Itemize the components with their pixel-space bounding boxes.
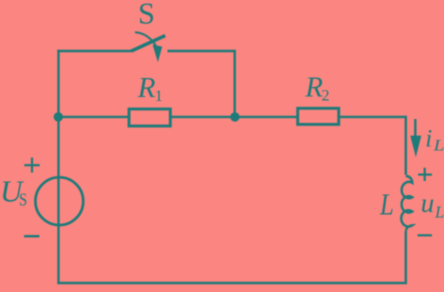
wire: top-left horizontal to switch left contact [57, 50, 131, 52]
switch S blade [131, 36, 165, 52]
svg-text:S: S [138, 0, 155, 31]
svg-text:R: R [304, 72, 323, 104]
plus sign (inductor) [418, 168, 432, 181]
plus sign (source) [24, 158, 39, 173]
resistor R1 [129, 109, 170, 126]
minus sign (source) [24, 235, 39, 237]
wire: switch right contact to top-right corner [168, 50, 235, 52]
wire: R2 to top-right corner [339, 116, 406, 118]
svg-text:u: u [421, 188, 435, 218]
svg-text:L: L [379, 188, 394, 222]
svg-text:S: S [19, 189, 27, 210]
resistor R2 [298, 108, 339, 124]
svg-text:2: 2 [322, 88, 330, 105]
wire: main horizontal from left junction to R1 [59, 116, 130, 118]
inductor L coil [401, 176, 412, 230]
node B: junction dot at middle (switch / R1 / R2) [230, 112, 239, 121]
wire: right vertical below inductor [405, 231, 407, 283]
switch S actuate arrow (arc) [135, 32, 156, 46]
wire: R1 to middle junction [170, 116, 297, 118]
node A: junction dot at left (source / R1) [54, 112, 63, 121]
switch S arrowhead [153, 45, 163, 62]
current arrow iL [414, 119, 416, 138]
wire: right vertical above inductor [405, 116, 407, 175]
svg-text:R: R [137, 72, 156, 104]
wire: left vertical (source branch) [57, 50, 59, 283]
svg-text:i: i [425, 125, 432, 152]
svg-text:L: L [434, 202, 444, 221]
wire: bottom horizontal [57, 282, 407, 284]
svg-text:1: 1 [155, 88, 163, 105]
svg-text:L: L [433, 136, 444, 154]
minus sign (inductor) [418, 234, 432, 236]
voltage source US circle [35, 177, 83, 225]
wire: switch branch vertical down to junction [233, 50, 235, 117]
